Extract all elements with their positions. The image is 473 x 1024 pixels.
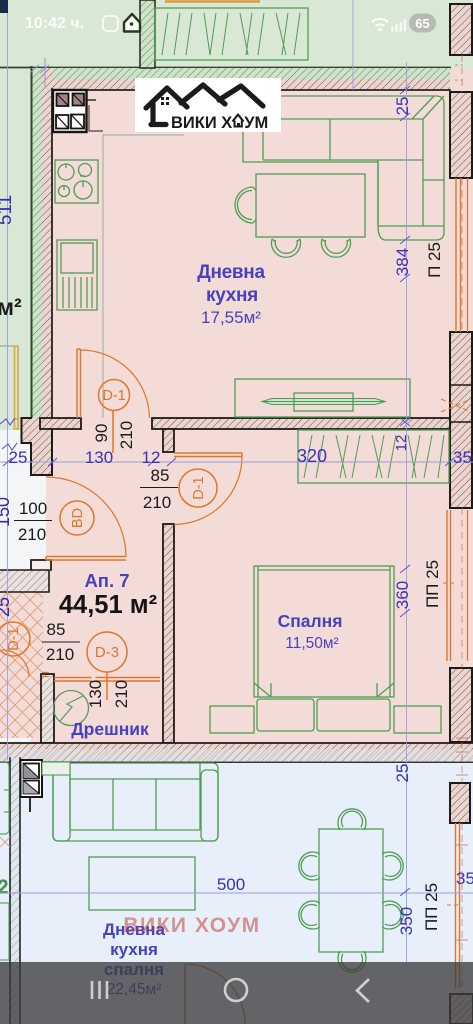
svg-text:85: 85 (151, 466, 170, 485)
node chair lower right 2 (382, 901, 403, 929)
door D-1 living-hall arc (81, 350, 150, 418)
node chair lower left 2 (299, 901, 320, 929)
wire window mark right upper (455, 65, 463, 80)
wire window left top cap (0, 345, 14, 347)
window right wall mid (447, 510, 451, 661)
wall closet left (41, 674, 54, 743)
svg-text:210: 210 (18, 525, 46, 544)
node door label circle D-3 (87, 632, 127, 672)
window left exterior (13, 346, 20, 429)
wardrobe neighbour top (155, 8, 308, 60)
node status wifi icon (372, 19, 388, 26)
svg-text:210: 210 (143, 493, 171, 512)
svg-text:ПП 25: ПП 25 (422, 883, 441, 931)
wall pier right C (450, 332, 472, 508)
svg-text:D-3: D-3 (95, 644, 119, 661)
node logo roof 1 (146, 88, 187, 108)
wire dim cross wall right (400, 418, 410, 426)
wall pier top-right (450, 4, 472, 55)
wire dim line horizontal lower (0, 892, 473, 894)
node status house icon (124, 14, 140, 32)
node door label circle D-1 hall (99, 380, 130, 411)
wall lower blue hatch band (0, 749, 473, 762)
svg-text:350: 350 (456, 869, 473, 888)
node kitchen shaft box (53, 90, 96, 132)
wall top exterior (green band) (31, 68, 450, 79)
wire window center lines red (456, 55, 468, 994)
wire leader D-1 hall (112, 411, 114, 454)
node nav home icon (225, 979, 247, 1001)
wall neighbour partition top (140, 0, 155, 68)
door lower apartment arc (185, 964, 245, 1024)
svg-text:D-1: D-1 (102, 388, 125, 404)
node status signal bars (391, 20, 406, 32)
node door label circle D-1 bathroom (0, 622, 30, 656)
svg-text:Ап. 7: Ап. 7 (84, 570, 129, 591)
wall left exterior green band (31, 68, 42, 418)
wall top exterior (pink band) (31, 79, 450, 90)
svg-text:Спалня: Спалня (278, 611, 343, 631)
node navigation bar (0, 962, 473, 1024)
wall pier right D2 (450, 783, 470, 823)
svg-text:85: 85 (47, 620, 66, 639)
wire dim 85 divider bath (42, 641, 80, 643)
svg-text:130: 130 (86, 680, 105, 708)
node logo background box (135, 78, 281, 132)
wire bottom wall edges (0, 743, 473, 762)
svg-text:150: 150 (0, 497, 13, 527)
wire pier C divider 1 (450, 384, 472, 386)
wire door D-1 bathroom jamb (42, 673, 49, 677)
node status battery pill (409, 14, 436, 33)
svg-text:м²: м² (0, 294, 22, 320)
svg-text:2: 2 (0, 877, 8, 897)
svg-text:500: 500 (217, 875, 245, 894)
node chair bottom 2 (322, 239, 351, 257)
wire kitchen cabinet lines (89, 105, 103, 131)
wall pier right E (450, 994, 473, 1024)
wire dim zigzag break left lower (2, 443, 17, 450)
wire top wall inner edge (52, 89, 450, 91)
node logo O house glyph (232, 113, 245, 129)
wall pier right B (450, 92, 472, 178)
svg-text:511: 511 (0, 195, 16, 225)
node nav back icon (357, 979, 369, 1002)
door BD leaf (46, 557, 126, 561)
svg-text:ВИКИ ХОУМ: ВИКИ ХОУМ (123, 914, 260, 937)
node dining table (256, 174, 365, 237)
door D-1 bathroom arc (2, 650, 29, 677)
svg-text:350: 350 (397, 907, 416, 935)
wire top wall outer edge (0, 67, 450, 69)
svg-text:350: 350 (453, 448, 473, 467)
svg-text:130: 130 (85, 448, 113, 467)
wire left wall outer edge (31, 67, 33, 418)
node status screenshot icon (103, 16, 118, 31)
node wardrobe bedroom (298, 430, 449, 483)
svg-text:25: 25 (393, 764, 412, 783)
window right wall lower (456, 823, 460, 988)
wire neighbour tile mark (0, 837, 10, 847)
svg-text:D-1: D-1 (6, 627, 22, 650)
node nightstand right (394, 706, 441, 733)
node sofa L-shape living room (243, 96, 444, 240)
door BD arc (46, 477, 126, 557)
svg-text:12: 12 (393, 435, 410, 452)
wire door lower leaf (184, 964, 186, 1024)
wire dim line vertical top mid (352, 0, 354, 90)
svg-text:ПП 25: ПП 25 (423, 560, 442, 608)
svg-text:210: 210 (112, 680, 131, 708)
node logo roof 3 (219, 86, 263, 106)
node coffee table lower (89, 857, 195, 910)
node pillow right (317, 699, 390, 731)
node chair lower right 1 (382, 852, 403, 880)
svg-text:10:42 ч.: 10:42 ч. (25, 15, 84, 32)
wire window mark lower (447, 904, 459, 906)
node chair lower bottom (338, 951, 366, 972)
wire leader D-3 (106, 672, 108, 700)
node kitchen counter fridge (57, 240, 97, 310)
svg-text:210: 210 (46, 645, 74, 664)
wire window cross mark right (441, 399, 471, 412)
svg-text:кухня: кухня (206, 285, 258, 306)
wall left exterior pink band (42, 68, 52, 418)
svg-text:Дрешник: Дрешник (71, 719, 149, 739)
node logo roof 2 (181, 85, 225, 104)
node neighbour lower furniture left (0, 762, 9, 960)
node dining table lower (319, 829, 383, 952)
wall left below window niche (31, 418, 52, 475)
node chair lower left 1 (299, 852, 320, 880)
wire kitchen zone boundary (103, 135, 184, 418)
wire left wall inner edge (51, 89, 53, 419)
node pillow left (257, 699, 314, 731)
svg-text:25: 25 (0, 597, 13, 617)
wire lower-left strip edges (10, 758, 20, 1024)
wall lower-left edge strip (10, 758, 20, 1024)
node door label circle BD (60, 501, 94, 535)
wall bathroom top band (0, 570, 49, 592)
svg-text:25: 25 (9, 448, 28, 467)
door D-1 bedroom arc (174, 457, 242, 525)
wall living bottom main (152, 418, 450, 429)
svg-text:Дневна: Дневна (197, 262, 265, 283)
svg-text:100: 100 (19, 499, 47, 518)
node logo house body (151, 104, 166, 125)
node door label circle D-1 bedroom (179, 469, 217, 507)
node chair bottom 1 (272, 239, 301, 257)
node tv cabinet (235, 379, 410, 417)
node sofa lower apartment (53, 763, 218, 841)
door D-1 bedroom leaf (174, 453, 242, 457)
node boiler closet (54, 691, 89, 726)
door D-3 sliding leaf (54, 678, 160, 682)
svg-text:360: 360 (393, 581, 412, 609)
node status bar corner chip (0, 0, 8, 13)
wall living bottom stub left (40, 418, 81, 429)
wire dim 100 divider BD (14, 520, 52, 522)
node tv set (262, 393, 385, 411)
wall apartment bottom (0, 743, 473, 762)
wire bathroom band edges (0, 570, 49, 592)
node logo windows (161, 97, 169, 105)
node stove (55, 160, 98, 203)
node bed (254, 566, 394, 697)
svg-text:BD: BD (70, 508, 86, 528)
node bathroom tile floor (0, 592, 43, 738)
node lower wall cabinet box (42, 762, 70, 775)
wire neighbour wardrobe top orange line (165, 0, 260, 3)
wire window mark right mid (443, 582, 455, 584)
svg-text:90: 90 (92, 424, 111, 443)
svg-text:44,51 м²: 44,51 м² (59, 591, 157, 619)
node shaft lower apartment (21, 760, 43, 812)
node window niche step (22, 418, 53, 475)
wire dim 85 divider bedroom door (140, 487, 178, 489)
svg-text:65: 65 (415, 16, 429, 31)
wall bedroom pier upper (163, 429, 174, 452)
svg-text:384: 384 (393, 248, 412, 276)
wire dim line vertical right (406, 62, 408, 962)
backgrounds (0, 0, 473, 68)
svg-text:210: 210 (117, 421, 136, 449)
wire dim zigzag break left upper (0, 418, 15, 425)
wire dim line vertical left (7, 0, 9, 760)
wire dim tick marks chain (3, 458, 454, 466)
svg-text:12: 12 (142, 448, 161, 467)
svg-text:17,55м²: 17,55м² (201, 308, 261, 327)
svg-text:кухня: кухня (110, 940, 158, 959)
node nightstand left (210, 706, 254, 733)
svg-text:11,50м²: 11,50м² (285, 635, 338, 652)
svg-text:320: 320 (297, 446, 327, 466)
wall niche fill (22, 418, 53, 443)
node chair lower top (338, 809, 366, 830)
node nav recent icon (92, 981, 107, 999)
wire dim ticks right line (400, 86, 410, 896)
node chair left (235, 187, 256, 223)
door D-1 living-hall leaf (77, 349, 81, 418)
wall bedroom pier lower (163, 524, 174, 743)
wall pier right D (450, 668, 472, 742)
svg-text:25: 25 (393, 97, 412, 116)
wire dim chain horizontal hall (0, 461, 473, 463)
wire left wall bottom end (31, 474, 52, 476)
svg-text:ВИКИ ХОУМ: ВИКИ ХОУМ (171, 114, 268, 132)
wire pier C divider 2 (450, 421, 472, 423)
svg-text:П 25: П 25 (425, 242, 444, 278)
wall bath step piece (31, 560, 51, 570)
window right wall upper (456, 178, 461, 332)
svg-text:D-1: D-1 (191, 476, 207, 499)
wire dim corner marks top-left (30, 58, 49, 88)
